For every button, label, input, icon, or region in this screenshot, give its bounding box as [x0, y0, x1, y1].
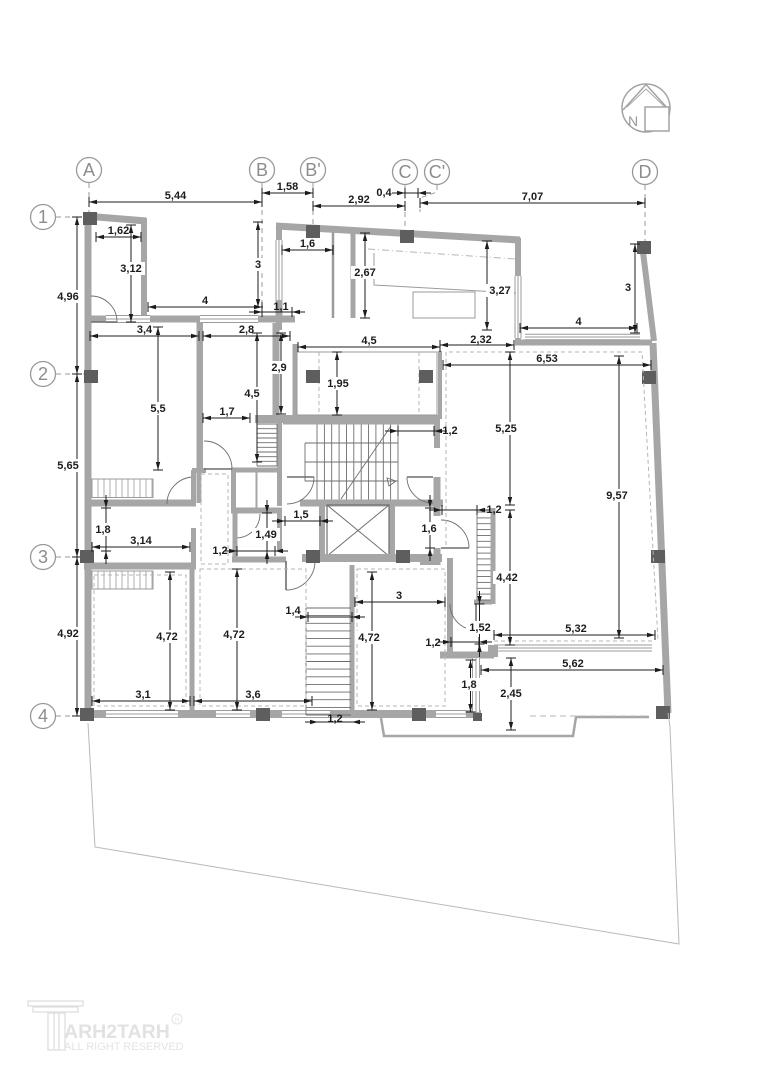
dim 4,5 B [241, 333, 263, 462]
svg-text:N: N [628, 113, 638, 129]
kitchen counter line [374, 253, 516, 293]
dim 4,72 c [355, 572, 383, 710]
wall int A-B vertical [197, 322, 202, 503]
grid circle A [77, 158, 102, 183]
svg-text:4: 4 [575, 316, 582, 328]
wall int left vertical lower [190, 566, 195, 714]
svg-text:1,52: 1,52 [469, 622, 490, 634]
stair treads [317, 425, 398, 501]
svg-text:6,53: 6,53 [536, 353, 557, 365]
wall stub 1,1 [276, 300, 283, 319]
dim 0,4 [376, 187, 431, 199]
grid circle B [250, 158, 275, 183]
svg-text:5,65: 5,65 [57, 460, 78, 472]
svg-text:1,8: 1,8 [95, 524, 110, 536]
wall right exterior slanted [653, 343, 668, 713]
svg-text:2,45: 2,45 [500, 688, 521, 700]
svg-text:1,4: 1,4 [285, 605, 301, 617]
svg-text:3: 3 [255, 259, 261, 271]
svg-text:5,25: 5,25 [495, 423, 516, 435]
wall wc top [231, 468, 282, 473]
svg-text:1,2: 1,2 [425, 637, 440, 649]
dim 1,49 [252, 500, 280, 564]
stairdn left line [305, 608, 307, 715]
svg-text:3: 3 [396, 590, 402, 602]
dim 5,65 [54, 374, 82, 557]
dim 2,92 [313, 194, 405, 211]
window 2,45 band [473, 658, 480, 712]
door living [441, 520, 469, 548]
svg-text:2,67: 2,67 [354, 267, 375, 279]
wall terrace bottom [515, 340, 652, 346]
wall balcony left [293, 344, 298, 419]
svg-text:1,6: 1,6 [300, 238, 315, 250]
small stair B [257, 424, 277, 466]
wall under hall [420, 557, 440, 565]
svg-text:1: 1 [38, 207, 48, 227]
column B'1 [306, 225, 320, 238]
column C3 [396, 550, 410, 563]
column A1 [83, 212, 97, 225]
svg-text:3,12: 3,12 [120, 263, 141, 275]
dim 1,2 corridor [212, 545, 288, 557]
dim 2,32 [440, 334, 514, 350]
column D1 [637, 241, 651, 254]
dashed room left [94, 575, 186, 706]
dim 5,44 [89, 190, 262, 207]
window terrace bottom [525, 334, 640, 340]
svg-text:4,5: 4,5 [244, 388, 259, 400]
grid circle 3 [31, 545, 56, 570]
wall int left mid2 [191, 528, 196, 566]
wall int B front [273, 323, 280, 417]
dim 1,2 stair [385, 425, 458, 437]
dim 5,25 [492, 352, 520, 505]
svg-text:A: A [83, 160, 95, 180]
wall topmid left [276, 223, 282, 330]
dim 3,6 [194, 689, 312, 706]
wall facade A-B [85, 316, 295, 323]
dim 1,4 [285, 605, 365, 622]
dashed room bl [200, 569, 306, 706]
site boundary top right [668, 713, 670, 727]
wall balcony bottom [255, 415, 440, 423]
svg-text:1,6: 1,6 [421, 523, 436, 535]
svg-text:1,2: 1,2 [486, 504, 501, 516]
dim 6,53 [443, 353, 651, 370]
stairdn treads [306, 608, 351, 715]
door stair right [407, 477, 433, 503]
dim 1,5 hall [272, 509, 333, 526]
dashed living outline [446, 352, 658, 640]
grid circle C [393, 160, 418, 185]
dim 1,2 bottom [305, 713, 365, 725]
wall int left mid [191, 470, 196, 506]
wall stair left low [277, 512, 282, 550]
dim 1,2 wc [425, 637, 492, 649]
svg-text:2: 2 [38, 364, 48, 384]
svg-text:1,49: 1,49 [255, 529, 276, 541]
wall kitchen thin [332, 232, 335, 318]
svg-text:7,07: 7,07 [522, 191, 543, 203]
svg-text:4,72: 4,72 [223, 629, 244, 641]
dim 4 terrace [520, 316, 637, 333]
dim 5,62 [481, 658, 663, 675]
dashed room bc [357, 569, 445, 706]
wall stub left [192, 468, 206, 473]
window right room bottom [494, 645, 652, 651]
wall corner block [488, 645, 498, 657]
wall hall right lower [434, 548, 441, 565]
dim 3,1 [92, 689, 190, 706]
dim 9,57 [603, 356, 631, 638]
svg-text:0,4: 0,4 [376, 187, 392, 199]
dim 3 terrace [623, 244, 640, 333]
grid circle B-prime [301, 158, 326, 183]
balcony outline [297, 352, 437, 415]
kitchen dash line [368, 249, 515, 259]
svg-text:9,57: 9,57 [606, 490, 627, 502]
door bottom hall [286, 561, 315, 590]
dim 4,92 [54, 557, 82, 716]
dim 5,5 [147, 327, 169, 470]
logo text [64, 1014, 184, 1053]
dim 1,95 [324, 352, 352, 415]
svg-text:5,62: 5,62 [562, 658, 583, 670]
svg-text:B': B' [305, 160, 320, 180]
svg-text:1,1: 1,1 [273, 301, 288, 313]
svg-text:1,8: 1,8 [461, 679, 476, 691]
wall wc partition [256, 472, 258, 509]
north symbol [622, 84, 670, 132]
wall stair bottom [300, 500, 443, 507]
window topmid right [515, 276, 521, 338]
door left mid [167, 477, 194, 504]
svg-text:1,2: 1,2 [327, 713, 342, 725]
svg-text:1,58: 1,58 [277, 181, 298, 193]
svg-text:2,92: 2,92 [348, 194, 369, 206]
svg-text:3,14: 3,14 [130, 535, 152, 547]
window topmid left [276, 240, 282, 302]
grid circle D [633, 160, 658, 185]
column D3 [651, 550, 665, 563]
wall bottom exterior [81, 710, 481, 718]
balcony dashes [319, 352, 419, 415]
svg-text:4: 4 [38, 706, 48, 726]
door small room [450, 604, 476, 630]
dim 4,72 a [153, 572, 181, 710]
dim 3,12 [117, 225, 145, 322]
column A4 [80, 708, 94, 721]
dashed corridor [201, 474, 228, 564]
dim 1,58 [262, 181, 313, 198]
stair landing bar [474, 600, 492, 605]
dim 5,32 [494, 623, 655, 640]
dim 3 B [253, 222, 263, 307]
svg-text:3: 3 [38, 547, 48, 567]
dim 2,45 [497, 658, 525, 730]
dim 1,52 [466, 591, 494, 657]
dim 3,4 [90, 324, 199, 341]
svg-text:3,1: 3,1 [135, 689, 150, 701]
svg-text:4,92: 4,92 [57, 628, 78, 640]
dim 3,27 [482, 241, 514, 330]
wall hall right [434, 477, 441, 516]
wall int topmid [351, 232, 356, 318]
grid dashed lines [56, 183, 645, 716]
column D2 [642, 371, 656, 384]
wall left mid h1 [88, 500, 196, 507]
svg-text:1,7: 1,7 [219, 406, 234, 418]
dashed living bottom [494, 640, 654, 642]
grid circle 2 [31, 362, 56, 387]
window bottom 1 [106, 711, 178, 718]
door topleft [91, 296, 117, 322]
dim 3,14 [92, 535, 190, 552]
wall left mid h2 [84, 563, 196, 570]
terrace dashed [530, 715, 649, 717]
closet 2 [92, 571, 153, 589]
svg-text:4,96: 4,96 [57, 291, 78, 303]
wall stair left [277, 421, 282, 506]
site boundary [88, 723, 679, 944]
svg-text:5,5: 5,5 [150, 403, 165, 415]
svg-text:ALL RIGHT RESERVED: ALL RIGHT RESERVED [64, 1041, 184, 1053]
wall elevator bottom [302, 554, 442, 562]
terrace step wall [381, 717, 649, 736]
wall top-left room right [141, 218, 147, 322]
dim 2,67 [351, 233, 379, 318]
svg-text:4,72: 4,72 [358, 632, 379, 644]
wall stair top [283, 418, 440, 425]
wall hall bottom [232, 557, 286, 563]
stair arrow [341, 426, 396, 499]
dim 1,8 left [92, 495, 114, 564]
column C4 [412, 708, 426, 721]
svg-text:ARH2TARH: ARH2TARH [64, 1021, 170, 1043]
wall wc2 left [233, 512, 238, 559]
wall elevator left [319, 503, 325, 560]
column balcony R [419, 370, 433, 383]
svg-text:2,9: 2,9 [271, 362, 286, 374]
svg-text:1,95: 1,95 [327, 378, 348, 390]
wall room right [447, 558, 453, 655]
svg-text:4,42: 4,42 [496, 572, 517, 584]
dim 4,72 b [220, 569, 248, 710]
dim 4,42 [493, 510, 521, 645]
dim 2,8 [203, 324, 290, 341]
svg-text:2,32: 2,32 [470, 334, 491, 346]
service stair [477, 512, 491, 600]
window facade A-B 2 [200, 316, 258, 323]
svg-text:C: C [399, 162, 412, 182]
dim 1,8 b [458, 660, 480, 712]
svg-text:5,44: 5,44 [165, 190, 187, 202]
dim 1,62 [96, 225, 141, 242]
wall left exterior [85, 213, 92, 716]
elevator cab [327, 505, 389, 556]
kitchen island [413, 292, 475, 318]
wall topmid top sloped [276, 226, 520, 240]
column small [473, 713, 482, 721]
grid circle 4 [31, 704, 56, 729]
dim 1,6 topmid [282, 238, 333, 255]
svg-text:5,32: 5,32 [565, 623, 586, 635]
window facade A-B 1 [106, 316, 150, 323]
svg-text:D: D [639, 162, 652, 182]
dim 7,07 [420, 191, 645, 208]
wall int left vertical [198, 322, 203, 468]
dim 1,1 [249, 301, 305, 317]
dim 3 room [355, 590, 445, 607]
svg-text:2,8: 2,8 [239, 324, 254, 336]
svg-text:4: 4 [202, 295, 209, 307]
door room A2 [204, 441, 232, 469]
window bottom 3 [282, 711, 330, 718]
svg-text:1,2: 1,2 [212, 545, 227, 557]
column balcony L [306, 370, 320, 383]
svg-text:3,6: 3,6 [245, 689, 260, 701]
door stair left [287, 477, 314, 504]
window bottom 2 [216, 711, 250, 718]
grid circle C-prime [425, 160, 450, 185]
dim 2,9 [268, 333, 290, 414]
grid circle 1 [31, 205, 56, 230]
svg-text:3,4: 3,4 [137, 324, 153, 336]
dim 4 front [148, 295, 262, 312]
wall topmid right [515, 238, 521, 345]
column A2 [84, 370, 98, 383]
column D4 [656, 706, 670, 719]
svg-text:3,27: 3,27 [489, 285, 510, 297]
wall elevator right [389, 503, 395, 560]
svg-text:B: B [256, 160, 268, 180]
wall wc bottom [231, 508, 282, 514]
wall stairdn right [350, 565, 355, 715]
stair landing lines [305, 443, 398, 481]
column C1 [400, 230, 414, 243]
svg-text:1,5: 1,5 [293, 509, 308, 521]
dim 4,5 balcony [298, 335, 440, 352]
logo pillar [28, 1001, 83, 1050]
column B3 [306, 550, 320, 563]
svg-text:C': C' [429, 162, 445, 182]
dim 1,2 svc [429, 504, 502, 516]
wall terrace right slanted [643, 252, 654, 341]
dim 4,96 [54, 217, 82, 374]
wall stair right upper [434, 418, 440, 448]
door wc lower [236, 514, 260, 538]
closet 1 [92, 479, 153, 498]
column mid4 [256, 708, 270, 721]
dim 1,6 hall [418, 495, 440, 561]
svg-text:1,2: 1,2 [442, 425, 457, 437]
wall top-left room top [85, 216, 146, 221]
svg-text:R: R [175, 1018, 180, 1024]
svg-text:4,5: 4,5 [361, 335, 376, 347]
wall wc left [231, 468, 236, 512]
column A3 [80, 550, 94, 563]
svg-text:1,62: 1,62 [108, 225, 129, 237]
window bottom 4 [436, 711, 466, 718]
dim 1,7 [203, 406, 250, 423]
wall balcony right [438, 351, 442, 419]
wall service stair right [491, 508, 496, 604]
svg-text:4,72: 4,72 [156, 631, 177, 643]
svg-text:3: 3 [625, 282, 631, 294]
wall below living [440, 652, 494, 659]
